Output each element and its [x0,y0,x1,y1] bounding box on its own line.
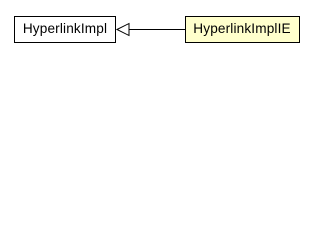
generalization arrow from HyperlinkImplIE to HyperlinkImpl [0,0,311,59]
class box HyperlinkImpl [14,16,116,43]
hollow triangle arrowhead [117,24,129,36]
wire: horizontal connector line [128,29,185,31]
class box HyperlinkImplIE [185,16,300,43]
